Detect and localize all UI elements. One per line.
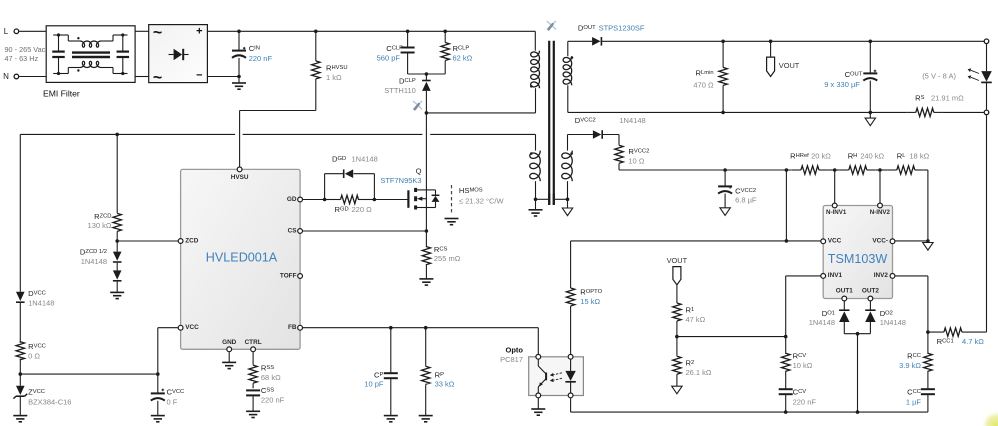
node N input terminal: [3, 72, 19, 81]
label ZVCC: [28, 387, 71, 406]
svg-text:OUT2: OUT2: [862, 287, 879, 294]
EMI choke core: [72, 53, 110, 57]
svg-text:ZCD: ZCD: [185, 237, 199, 244]
EMI choke phase dots: [77, 37, 79, 72]
junction R1 R2: [675, 335, 679, 339]
junction VOUT node: [769, 40, 773, 44]
junction N-INV2 top: [878, 168, 882, 172]
label R2: [686, 359, 712, 377]
label input voltage range: [5, 45, 46, 63]
EMI filter box: [46, 26, 135, 83]
resistor RL: [888, 166, 924, 174]
label DGD: [332, 155, 378, 164]
op-amp U1 HVLED001A box: [181, 169, 301, 349]
svg-text:10 kΩ: 10 kΩ: [793, 361, 813, 370]
wire DO common down: [857, 334, 859, 412]
zener ZVCC: [13, 374, 27, 416]
pin INV2: [874, 272, 895, 279]
junction INV2 node: [926, 330, 930, 334]
capacitor COUT: [863, 41, 877, 112]
ground opto: [531, 398, 545, 415]
opto pin bottom-left: [536, 393, 541, 398]
transformer secondary winding: [563, 41, 572, 112]
svg-text:VCC-: VCC-: [872, 238, 888, 245]
junction RGD right: [373, 198, 377, 202]
capacitor CVCC: [151, 374, 165, 416]
resistor RZCD: [113, 134, 121, 241]
resistor RP: [422, 328, 430, 416]
opto pin top-left: [536, 354, 541, 359]
label HSMOS: [459, 186, 505, 206]
resistor RLmin: [719, 41, 727, 112]
svg-text:Opto: Opto: [506, 346, 524, 355]
junction CVCC2 top: [723, 168, 727, 172]
wire opto to bottom rail: [570, 398, 572, 412]
wire GD line: [303, 199, 409, 201]
resistor RCLP: [441, 31, 449, 74]
label CCLP: [377, 44, 403, 62]
svg-text:18 kΩ: 18 kΩ: [909, 152, 929, 161]
label RHRef: [790, 152, 831, 161]
pin CTRL: [245, 339, 262, 351]
wire EMI inner top rail: [53, 34, 127, 36]
svg-text:BZX384-C16: BZX384-C16: [28, 397, 71, 406]
label CVCC: [167, 387, 185, 406]
capacitor CCC: [921, 389, 935, 412]
svg-text:9 x 330 µF: 9 x 330 µF: [824, 80, 860, 89]
svg-text:220 nF: 220 nF: [793, 397, 817, 406]
wire left rail vertical: [19, 134, 21, 291]
svg-text:GD: GD: [287, 196, 297, 203]
pin GD: [287, 196, 303, 203]
svg-text:+: +: [196, 25, 202, 37]
svg-text:26.1 kΩ: 26.1 kΩ: [686, 368, 712, 377]
pin TOFF: [280, 272, 303, 279]
label HVLED001A: [206, 250, 278, 264]
junction RHVSU top: [314, 30, 318, 34]
svg-text:FB: FB: [288, 324, 297, 331]
svg-text:1 kΩ: 1 kΩ: [326, 73, 342, 82]
svg-text:−: −: [196, 70, 202, 82]
label CCC: [906, 387, 922, 406]
svg-text:HVLED001A: HVLED001A: [206, 250, 278, 264]
svg-text:1N4148: 1N4148: [352, 155, 378, 164]
label RP: [435, 371, 455, 389]
label RCV: [793, 352, 813, 371]
pin INV1: [821, 272, 843, 279]
ground CIN: [232, 77, 246, 90]
label EMI Filter: [43, 89, 80, 99]
junction drain node: [425, 111, 429, 115]
bridge rectifier box: [149, 25, 208, 83]
capacitor interwinding: [549, 194, 554, 205]
junction RCLP top: [443, 30, 447, 34]
label RCLP: [453, 44, 473, 62]
inductor EMI choke bottom winding: [68, 61, 113, 73]
transformer core: [549, 41, 554, 205]
wire ZCD to pin: [117, 240, 178, 242]
svg-text:INV2: INV2: [874, 272, 889, 279]
node output negative terminal: [984, 110, 989, 115]
svg-text:1N4148: 1N4148: [880, 318, 906, 327]
label RH: [848, 152, 885, 161]
svg-text:VOUT: VOUT: [667, 256, 688, 265]
junction CP top: [389, 326, 393, 330]
svg-text:1N4148: 1N4148: [809, 318, 835, 327]
resistor R1: [673, 303, 681, 337]
junction RLmin top: [721, 40, 725, 44]
ground ZVCC: [13, 416, 27, 422]
label RCC1: [937, 337, 985, 346]
capacitor CP: [384, 328, 398, 416]
opto phototransistor: [538, 359, 546, 393]
svg-text:470 Ω: 470 Ω: [693, 81, 714, 90]
junction COUT top: [869, 40, 873, 44]
label VOUT divider: [667, 256, 688, 265]
LED load arrows: [968, 68, 979, 80]
svg-text:OUT1: OUT1: [836, 287, 853, 294]
svg-text:240 kΩ: 240 kΩ: [860, 152, 884, 161]
wire secondary bottom rail: [568, 111, 984, 113]
svg-text:255 mΩ: 255 mΩ: [434, 254, 461, 263]
label Rs: [915, 94, 964, 103]
node L input terminal: [4, 27, 19, 36]
transformer primary phase dot: [530, 85, 533, 88]
label TSM103W: [828, 252, 888, 266]
junction EMI cap nodes: [57, 33, 125, 75]
wire bridge bottom to CIN: [207, 76, 239, 78]
ground transformer primary side: [529, 199, 543, 216]
junction interwinding right: [566, 198, 570, 202]
inductor EMI choke top winding: [68, 35, 113, 47]
wire EMI to bridge bottom: [135, 76, 149, 78]
wire EMI to bridge top: [135, 30, 149, 32]
resistor RCC: [924, 332, 932, 389]
wire INV2: [895, 276, 928, 332]
svg-text:N-INV1: N-INV1: [826, 209, 847, 216]
svg-text:VOUT: VOUT: [779, 61, 800, 70]
svg-text:STTH110: STTH110: [384, 86, 416, 95]
svg-text:~: ~: [153, 25, 162, 42]
wire N to EMI filter: [19, 76, 46, 78]
label DCLP: [384, 77, 416, 95]
svg-text:130 kΩ: 130 kΩ: [88, 221, 112, 230]
capacitor CCLP: [401, 31, 415, 74]
scissors icon near DCLP: [413, 101, 422, 109]
diode DOUT: [568, 37, 987, 46]
label RHVSU: [326, 64, 348, 82]
label RSS: [261, 364, 281, 383]
junction CCV bottom: [784, 410, 788, 414]
svg-text:10 Ω: 10 Ω: [628, 157, 644, 166]
junction CIN top: [237, 30, 241, 34]
label DVCC: [28, 289, 54, 307]
junction interwinding left: [534, 198, 538, 202]
svg-text:220 Ω: 220 Ω: [352, 205, 373, 214]
svg-text:PC817: PC817: [500, 355, 523, 364]
svg-text:15 kΩ: 15 kΩ: [580, 297, 600, 306]
diode DVCC2: [568, 130, 620, 139]
resistor R2: [673, 337, 681, 387]
label DOUT: [578, 23, 645, 32]
svg-text:HVSU: HVSU: [231, 174, 249, 181]
LED load: [981, 44, 992, 110]
svg-text:47 - 63 Hz: 47 - 63 Hz: [5, 54, 39, 63]
svg-text:90 - 265 Vac: 90 - 265 Vac: [5, 45, 46, 54]
wire drain vertical: [425, 113, 427, 190]
svg-text:33 kΩ: 33 kΩ: [435, 380, 455, 389]
svg-text:21.91 mΩ: 21.91 mΩ: [931, 94, 964, 103]
pin N-INV1: [826, 203, 847, 216]
diode DO1: [839, 301, 849, 334]
wire DO join: [844, 333, 870, 335]
svg-text:10 pF: 10 pF: [364, 380, 384, 389]
wire VCC- to ground: [895, 240, 928, 242]
ground VCC- secondary: [923, 243, 933, 251]
junction vcc2-vccrail: [785, 168, 789, 172]
ground CP: [384, 416, 398, 422]
junction RZCD top: [115, 133, 119, 137]
ground R2: [672, 386, 682, 394]
ground RCS: [419, 279, 433, 285]
wire EMI inner bottom rail: [53, 73, 127, 75]
label DVCC2: [575, 116, 646, 125]
node output positive terminal: [984, 39, 989, 44]
transistor Q STF7N95K3: [408, 188, 439, 231]
ground GND pin: [222, 352, 236, 369]
junction DO bottom: [856, 410, 860, 414]
transformer secondary phase dot: [571, 56, 574, 59]
label R1: [686, 306, 706, 324]
pin HVSU: [231, 167, 249, 181]
scissors icon above transformer: [547, 21, 556, 29]
diode DO2: [865, 301, 875, 334]
svg-text:220 nF: 220 nF: [261, 396, 285, 405]
svg-text:INV1: INV1: [828, 272, 843, 279]
svg-text:1N4148: 1N4148: [81, 257, 107, 266]
bridge - mark: [196, 70, 202, 82]
bridge + mark: [196, 25, 202, 37]
pin OUT1: [836, 287, 853, 301]
svg-text:3.9 kΩ: 3.9 kΩ: [899, 361, 921, 370]
junction vcc rail drop bottom: [785, 239, 789, 243]
label output rating: [922, 72, 956, 81]
svg-text:Q: Q: [416, 166, 422, 175]
heatsink HSMOS dashed: [451, 185, 453, 214]
ground DZCD: [110, 292, 124, 298]
node VOUT flag output: [767, 41, 775, 76]
junction CCLP top: [406, 30, 410, 34]
wire VCC node: [20, 328, 178, 374]
wire RHVSU to HVSU pin: [240, 111, 316, 168]
svg-text:L: L: [4, 27, 9, 36]
junction N-INV1 top: [833, 168, 837, 172]
svg-text:560 pF: 560 pF: [377, 53, 401, 62]
capacitor CSS: [246, 384, 260, 412]
diode DZCD second half: [113, 263, 122, 293]
wire INV1: [786, 276, 821, 337]
wire vcc rail drop: [785, 170, 787, 241]
wire FB line: [303, 327, 539, 329]
wire N-INV1 vertical: [834, 170, 836, 203]
svg-text:(5 V - 8 A): (5 V - 8 A): [922, 72, 956, 81]
node VOUT flag divider: [673, 267, 681, 303]
diode DZCD first half: [113, 241, 122, 262]
label CCV: [793, 387, 817, 406]
label RVCC: [28, 342, 46, 361]
label RGD: [335, 205, 373, 214]
junction clamp bottom DCLP: [425, 72, 429, 76]
label ROPTO: [580, 288, 602, 306]
label DO1: [809, 309, 835, 327]
svg-text:1N4148: 1N4148: [619, 116, 645, 125]
svg-text:20 kΩ: 20 kΩ: [811, 152, 831, 161]
label CP: [364, 371, 384, 389]
opto coupling arrows: [550, 373, 562, 382]
decorative corner blob: [981, 410, 998, 426]
svg-text:1 µF: 1 µF: [906, 397, 922, 406]
aux right phase dot: [570, 152, 573, 155]
junction CVCC top: [156, 372, 160, 376]
pin TSM VCC: [821, 238, 842, 245]
label RL: [897, 152, 930, 161]
resistor RCV: [782, 337, 790, 390]
pin FB: [288, 324, 303, 331]
pin TSM VCC-: [872, 238, 895, 245]
svg-text:STPS1230SF: STPS1230SF: [599, 23, 645, 32]
label VOUT output: [779, 61, 800, 70]
svg-text:N-INV2: N-INV2: [870, 209, 891, 216]
opto pin bottom-right: [568, 393, 573, 398]
ground HSMOS: [445, 219, 459, 225]
svg-text:0 Ω: 0 Ω: [28, 352, 40, 361]
label Q: [380, 166, 421, 185]
wire clamp bottom: [408, 73, 446, 75]
pin ZCD: [178, 237, 199, 244]
wire aux rail: [20, 133, 535, 135]
ground COUT: [865, 112, 875, 125]
label COUT: [824, 70, 862, 89]
ground CVCC2: [720, 208, 730, 216]
transformer primary winding: [531, 31, 540, 113]
junction CIN bottom: [237, 75, 241, 79]
wire bottom feedback rail: [571, 411, 928, 413]
resistor ROPTO: [566, 241, 574, 355]
opto pin top-right: [568, 354, 573, 359]
svg-text:VCC: VCC: [828, 238, 842, 245]
label Opto: [500, 346, 523, 364]
pin N-INV2: [870, 203, 891, 216]
resistor RCC1: [928, 328, 987, 336]
pin CS: [288, 227, 303, 234]
wire TSM vcc rail: [571, 240, 821, 242]
capacitor CIN: [232, 31, 246, 76]
label RCC: [899, 352, 921, 371]
label CVCC2: [735, 187, 757, 205]
label CSS: [261, 386, 285, 405]
junction source node: [425, 229, 429, 233]
label RVCC2: [628, 147, 649, 165]
resistor RCS: [422, 231, 430, 279]
junction RGD left: [323, 198, 327, 202]
resistor RHRef: [792, 166, 828, 174]
wire L to EMI filter: [19, 30, 46, 32]
wire primary bottom to drain: [426, 112, 535, 114]
svg-text:≤ 21.32 °C/W: ≤ 21.32 °C/W: [459, 197, 505, 206]
capacitor EMI CX1: [52, 35, 65, 74]
pin VCC: [178, 324, 199, 331]
ground RP: [419, 416, 433, 422]
pin GND: [222, 339, 237, 351]
junction DO common: [856, 332, 860, 336]
resistor Rs: [907, 108, 943, 116]
svg-text:220 nF: 220 nF: [249, 54, 273, 63]
diode DCLP: [422, 74, 431, 113]
resistor RGD: [325, 195, 375, 203]
wire output negative to RCC1: [986, 115, 988, 332]
ground CSS: [246, 411, 260, 417]
svg-text:1N4148: 1N4148: [28, 298, 54, 307]
ground transformer secondary side: [562, 199, 572, 215]
svg-text:62 kΩ: 62 kΩ: [453, 53, 473, 62]
svg-text:STF7N95K3: STF7N95K3: [380, 176, 421, 185]
capacitor CCV: [779, 389, 793, 412]
svg-text:47 kΩ: 47 kΩ: [686, 315, 706, 324]
opto LED: [565, 359, 575, 393]
diode DVCC: [16, 292, 25, 343]
wire DGD branch: [325, 174, 375, 200]
junction RVCC bottom: [19, 372, 23, 376]
transformer aux winding right: [562, 135, 573, 200]
label RLmin: [693, 68, 714, 89]
optocoupler box: [529, 357, 584, 396]
bridge diode symbol: [169, 49, 189, 60]
junction VCC- ground node: [926, 239, 930, 243]
svg-text:4.7 kΩ: 4.7 kΩ: [962, 337, 984, 346]
wire divider to INV1: [677, 336, 786, 338]
resistor RVCC: [16, 342, 24, 374]
svg-text:N: N: [3, 72, 9, 81]
junction RLmin bottom: [721, 111, 725, 115]
ground CVCC: [151, 416, 165, 422]
bridge AC marks: [153, 25, 162, 87]
label RCS: [434, 245, 461, 263]
wire FB to opto: [537, 328, 539, 355]
wire interwinding: [536, 198, 568, 200]
label CIN: [249, 44, 273, 63]
wire vcc2 rail: [619, 170, 928, 241]
resistor RH: [840, 166, 876, 174]
capacitor CVCC2: [718, 170, 732, 208]
resistor RSS: [249, 352, 257, 384]
svg-text:GND: GND: [222, 339, 237, 346]
transformer aux winding left: [530, 134, 541, 199]
junction RP top: [424, 326, 428, 330]
label RZCD: [88, 212, 112, 230]
svg-text:CS: CS: [288, 227, 298, 234]
resistor RHVSU: [312, 31, 320, 110]
svg-text:VCC: VCC: [185, 324, 199, 331]
wire DC bus top rail: [207, 30, 535, 32]
aux left phase dot: [530, 152, 533, 155]
svg-text:0 F: 0 F: [167, 397, 178, 406]
junction INV1 node: [784, 335, 788, 339]
op-amp U2 TSM103W box: [823, 206, 892, 299]
svg-text:TOFF: TOFF: [280, 272, 297, 279]
svg-text:68 kΩ: 68 kΩ: [261, 373, 281, 382]
label DZCD: [80, 248, 107, 266]
diode DGD: [344, 169, 354, 178]
